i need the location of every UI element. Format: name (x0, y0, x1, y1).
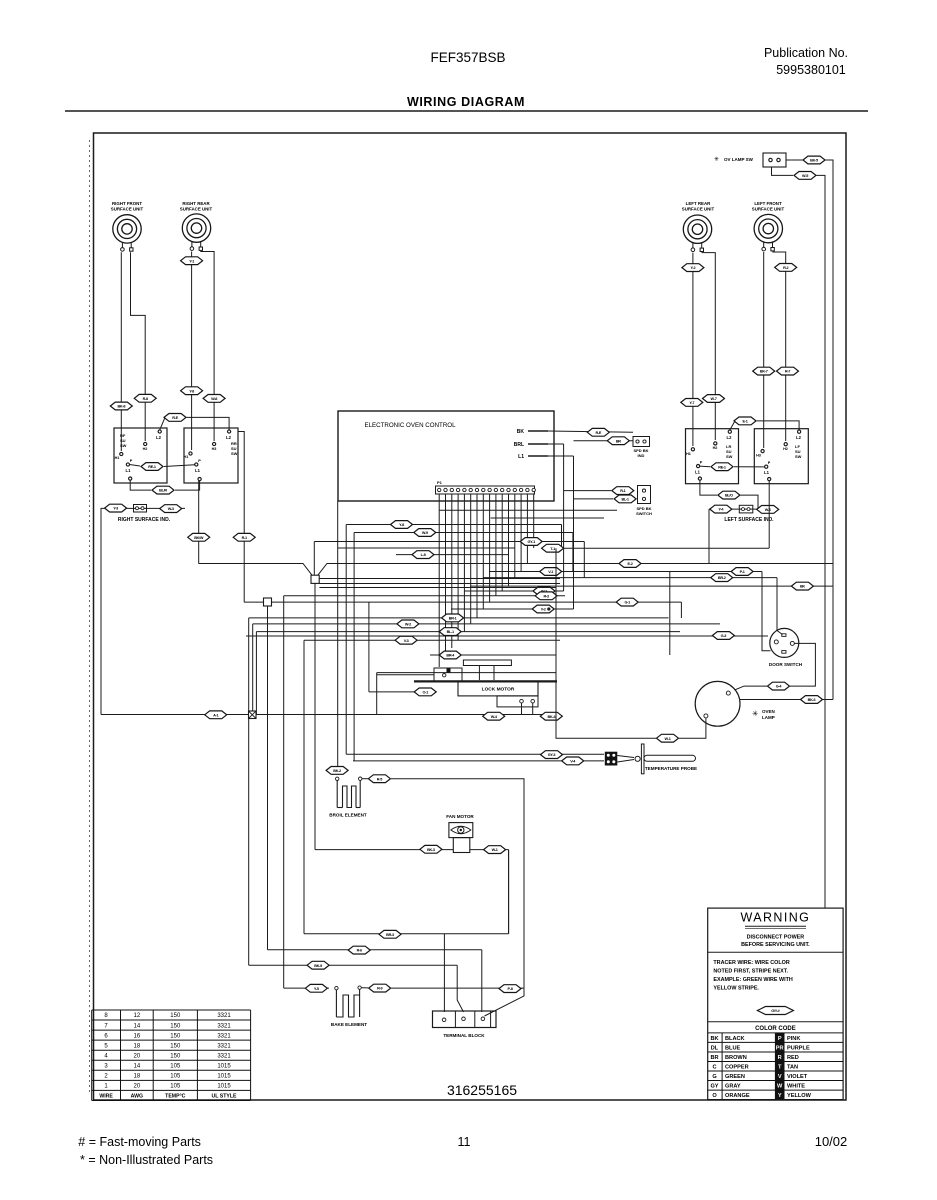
connector E-1 (734, 417, 756, 425)
svg-text:P: P (778, 1036, 782, 1042)
connector BK-3 (420, 845, 442, 853)
wire RE-2 to S4 P (734, 466, 765, 468)
svg-text:WIRING DIAGRAM: WIRING DIAGRAM (407, 95, 525, 109)
svg-text:16: 16 (134, 1033, 141, 1039)
wire pin 8 drop (482, 494, 484, 609)
wire staircase drop 2 (572, 533, 574, 572)
svg-text:WARNING: WARNING (741, 911, 811, 925)
svg-text:V-2: V-2 (541, 608, 546, 612)
S4 terminal H2 (784, 443, 787, 446)
svg-text:W-3: W-3 (168, 507, 174, 511)
svg-text:COLOR CODE: COLOR CODE (755, 1026, 796, 1032)
bake element meander (335, 990, 337, 1017)
svg-text:L2: L2 (156, 435, 162, 440)
wire pin 13 drop (514, 494, 516, 578)
node J1 fan-out lines (319, 578, 560, 580)
wire staircase drop 1 (561, 525, 563, 549)
wire gauge table (92, 1010, 251, 1100)
svg-text:V: V (778, 1074, 782, 1080)
oven lamp DS4 (695, 681, 740, 726)
wire door switch feed (246, 635, 768, 637)
door switch S6 (770, 628, 799, 657)
svg-text:H1: H1 (115, 456, 120, 460)
S3 contact P (697, 465, 700, 468)
wire S2 L1 drop (198, 481, 200, 564)
wire lamp bottom (679, 718, 706, 738)
wire pin 2 drop (445, 494, 447, 655)
svg-text:L2: L2 (796, 435, 802, 440)
wire W right drop (817, 175, 826, 908)
wire lock terminal 2 drop (532, 703, 534, 715)
wire run y577 (483, 577, 777, 579)
wire S2 right drop (238, 432, 244, 603)
wire run y655 (430, 654, 556, 656)
connector W-1 (484, 846, 506, 854)
wire to SPD BK IND (574, 440, 634, 442)
svg-text:12: 12 (134, 1013, 141, 1019)
svg-text:R: R (778, 1055, 782, 1061)
wire pin 7 drop (476, 494, 478, 618)
connector W-8 (203, 395, 225, 403)
svg-text:Y-8: Y-8 (189, 389, 194, 393)
wire to SPD BK SWITCH lower (574, 498, 614, 500)
wire to S4 L2 (757, 421, 800, 430)
connector BK-6 (801, 696, 823, 704)
connector V-2 (532, 605, 554, 613)
S1 terminal H2 (144, 442, 147, 445)
svg-text:P: P (700, 461, 703, 465)
svg-text:Y-7: Y-7 (689, 401, 694, 405)
wire left drop x252 (252, 624, 254, 715)
connector R-1 (612, 487, 634, 495)
svg-text:SURFACE UNIT: SURFACE UNIT (111, 207, 144, 212)
left rear surface unit (683, 215, 711, 252)
svg-text:OVEN: OVEN (762, 709, 775, 714)
lock motor terminal box (497, 696, 538, 707)
svg-text:BL/R: BL/R (159, 489, 167, 493)
connector Y-5 (305, 984, 327, 992)
svg-text:P: P (768, 461, 771, 465)
svg-text:DISCONNECT POWER: DISCONNECT POWER (747, 935, 805, 941)
svg-text:150: 150 (170, 1013, 181, 1019)
wire pin 9 drop (489, 494, 491, 602)
svg-text:BK-7: BK-7 (760, 370, 768, 374)
svg-text:3321: 3321 (217, 1053, 231, 1059)
connector R-E (587, 428, 609, 436)
connector BK/W (188, 533, 210, 541)
connector G-1 (616, 598, 638, 606)
connector BL-1 (614, 495, 636, 503)
wire run y602 (244, 601, 681, 603)
warning box (708, 908, 843, 1100)
wire left drop x283 (283, 596, 285, 988)
wire S3 L2 up (730, 421, 735, 430)
svg-text:P: P (198, 459, 201, 463)
svg-text:H1: H1 (686, 452, 691, 456)
svg-text:R-8: R-8 (143, 397, 148, 401)
svg-text:BK: BK (710, 1036, 718, 1042)
svg-text:W-1: W-1 (665, 737, 671, 741)
svg-text:BK-9: BK-9 (314, 964, 322, 968)
wire RE-1 to S2 P (164, 465, 195, 467)
wire to terminal block pin 3 (481, 950, 483, 1012)
wire LR H2 lead (702, 253, 716, 440)
svg-text:LEFT REAR: LEFT REAR (686, 201, 711, 206)
wire pin 6 drop (470, 494, 472, 624)
connector G/Y-# (757, 1007, 793, 1015)
svg-text:1015: 1015 (217, 1063, 231, 1069)
wire horizontal A-1 run (101, 714, 560, 716)
S3 terminal L2 (728, 430, 731, 433)
wire run y640 (304, 639, 560, 641)
svg-text:P1: P1 (437, 480, 443, 485)
svg-text:W: W (777, 1084, 783, 1090)
svg-text:20: 20 (134, 1053, 141, 1059)
svg-text:TEMPERATURE PROBE: TEMPERATURE PROBE (645, 766, 697, 771)
wire RR H1 lead (191, 252, 193, 451)
wire to S2 L1 (175, 481, 200, 490)
connector R-8 (134, 394, 156, 402)
wire bottom row 3 (249, 964, 458, 966)
svg-text:EXAMPLE: GREEN WIRE WITH: EXAMPLE: GREEN WIRE WITH (713, 977, 792, 983)
wire door bottom feed (762, 572, 771, 651)
connector R-7 (777, 367, 799, 375)
junction dot (548, 608, 550, 610)
electronic oven control U1 (338, 411, 554, 501)
wire x376 drop (376, 673, 378, 715)
svg-text:SW: SW (120, 443, 127, 448)
connector O-1 (414, 688, 436, 696)
svg-text:COPPER: COPPER (725, 1064, 749, 1070)
connector Y-8 (391, 521, 413, 529)
lock motor assembly top bar (463, 660, 511, 666)
wire run y532 (354, 532, 573, 534)
svg-text:BR-2: BR-2 (718, 576, 726, 580)
broil element meander (336, 781, 338, 808)
svg-text:20: 20 (134, 1084, 141, 1090)
svg-text:R-1: R-1 (242, 536, 247, 540)
connector BK-7 (753, 367, 775, 375)
svg-text:BK-8: BK-8 (117, 405, 125, 409)
svg-text:BK-4: BK-4 (547, 715, 556, 719)
speed bake switch S5 (638, 486, 651, 504)
svg-text:BK-6: BK-6 (808, 698, 816, 702)
wire door top feed (777, 578, 783, 635)
right rear surface unit (182, 214, 210, 251)
svg-text:T: T (778, 1064, 782, 1070)
S1 contact P (126, 463, 129, 466)
svg-text:LEFT FRONT: LEFT FRONT (754, 201, 782, 206)
S2 terminal H3 (213, 442, 216, 445)
wire bake right into block (485, 988, 525, 1016)
wire run y617 (249, 617, 669, 619)
left front surface switch S4 (754, 429, 808, 484)
wire bottom row 2 (268, 949, 482, 951)
fan motor base (453, 838, 470, 853)
svg-text:AWG: AWG (131, 1094, 143, 1100)
svg-text:150: 150 (170, 1023, 181, 1029)
wire to lamp top terminal (731, 686, 767, 691)
junction J3 (249, 711, 257, 719)
svg-text:TEMP°C: TEMP°C (165, 1094, 185, 1100)
svg-text:1015: 1015 (217, 1084, 231, 1090)
svg-text:VIOLET: VIOLET (787, 1074, 808, 1080)
wire lock motor left feed (369, 691, 434, 693)
wire S1 L1 down (130, 480, 151, 490)
border scan shadow (89, 140, 91, 1095)
svg-text:FAN MOTOR: FAN MOTOR (446, 814, 474, 819)
pin 16 (438, 488, 441, 491)
temperature probe connector (605, 752, 618, 766)
svg-text:H2: H2 (713, 446, 718, 450)
S2 terminal H1 (189, 452, 192, 455)
connector W-4 (483, 712, 505, 720)
svg-text:SURFACE UNIT: SURFACE UNIT (682, 207, 715, 212)
svg-text:3321: 3321 (217, 1043, 231, 1049)
wire RR H3 lead (200, 252, 214, 442)
svg-text:W-6: W-6 (765, 508, 771, 512)
svg-text:10/02: 10/02 (815, 1134, 848, 1149)
svg-text:ORANGE: ORANGE (725, 1093, 750, 1099)
wire RF H2 lead (131, 252, 146, 441)
wire S1 L2 up (160, 417, 165, 430)
connector R-3 (535, 592, 557, 600)
svg-text:BL/O: BL/O (725, 494, 733, 498)
svg-text:WHITE: WHITE (787, 1084, 805, 1090)
svg-text:H3: H3 (756, 454, 761, 458)
svg-text:14: 14 (134, 1063, 141, 1069)
wire LF H3 lead (763, 252, 765, 448)
svg-text:H2: H2 (143, 447, 148, 451)
svg-text:R-7: R-7 (785, 370, 790, 374)
svg-text:P: P (130, 459, 133, 463)
wire pin 15 drop (526, 494, 528, 564)
oven lamp switch SW1 (763, 153, 786, 167)
svg-text:L-8: L-8 (421, 553, 426, 557)
wire J2 drop (267, 606, 269, 950)
connector R-2 (775, 264, 797, 272)
svg-text:3321: 3321 (217, 1023, 231, 1029)
svg-text:1015: 1015 (217, 1074, 231, 1080)
connector BK-9 (307, 961, 329, 969)
connector Y-2 (682, 264, 704, 272)
svg-text:V-1: V-1 (548, 570, 553, 574)
connector BK (791, 582, 813, 590)
connector R-5 (368, 775, 390, 783)
svg-text:BR: BR (710, 1055, 718, 1061)
connector W-3 (160, 505, 182, 513)
S1 terminal L1 (129, 477, 132, 480)
wire to S2 L2 (187, 417, 230, 430)
svg-text:L2: L2 (226, 435, 232, 440)
svg-text:G-1: G-1 (624, 601, 630, 605)
left rear surface switch S3 (686, 429, 739, 484)
svg-text:DL: DL (711, 1045, 719, 1051)
svg-text:R-3: R-3 (543, 594, 548, 598)
wire fan right drop (508, 850, 510, 934)
svg-text:W-5: W-5 (802, 174, 808, 178)
svg-text:L1: L1 (126, 468, 132, 473)
speed bake indicator DS3 (633, 437, 650, 447)
svg-text:YELLOW STRIPE.: YELLOW STRIPE. (713, 986, 759, 992)
svg-text:W-7: W-7 (711, 397, 717, 401)
svg-text:Y: Y (778, 1093, 782, 1099)
wire run y623 (253, 623, 720, 625)
svg-text:SW: SW (231, 451, 238, 456)
wire y602 end drop (680, 602, 682, 618)
svg-text:RED: RED (787, 1055, 799, 1061)
wire broil to right drop (391, 779, 524, 988)
svg-text:SW: SW (726, 454, 733, 459)
connector RE-1 (141, 463, 163, 471)
svg-text:TAN: TAN (787, 1064, 798, 1070)
svg-text:P-8: P-8 (507, 987, 512, 991)
svg-text:150: 150 (170, 1033, 181, 1039)
wire RF H1 lead (120, 252, 122, 451)
wire J1 drop to fan row (314, 583, 316, 849)
svg-text:SURFACE UNIT: SURFACE UNIT (180, 207, 213, 212)
relay oval RE-1 between switch P contacts (130, 465, 141, 467)
connector V-3 (395, 636, 417, 644)
connector Y-4 (710, 505, 732, 513)
wire run y548 (546, 547, 769, 549)
svg-text:R-5: R-5 (377, 777, 382, 781)
svg-text:18: 18 (134, 1043, 141, 1049)
svg-text:Publication No.: Publication No. (764, 46, 848, 60)
wire LF H2 lead (772, 252, 785, 441)
svg-text:150: 150 (170, 1043, 181, 1049)
svg-text:✳: ✳ (752, 709, 759, 718)
node junction J1 (311, 575, 319, 583)
svg-text:L1: L1 (695, 470, 701, 475)
connector BR-1 (442, 614, 464, 622)
svg-text:TRACER WIRE: WIRE COLOR: TRACER WIRE: WIRE COLOR (713, 960, 789, 966)
svg-text:FEF357BSB: FEF357BSB (430, 50, 505, 65)
svg-text:RIGHT SURFACE IND.: RIGHT SURFACE IND. (118, 517, 171, 523)
wire switch to connector (786, 159, 803, 161)
wire BK right drop (826, 160, 834, 586)
wire left feed vertical (101, 508, 104, 714)
connector R-1 (233, 533, 255, 541)
wire run y554 (396, 554, 509, 556)
wire x669 drop (669, 572, 671, 656)
temperature probe body (617, 756, 634, 758)
wire pin 11 drop (501, 494, 503, 591)
S4 terminal L2 (798, 430, 801, 433)
wire switch bottom (772, 167, 794, 175)
wire lamp right to BK drop (740, 699, 833, 701)
svg-text:316255165: 316255165 (447, 1082, 517, 1098)
svg-text:W-1: W-1 (492, 848, 498, 852)
svg-text:BK/W: BK/W (194, 536, 204, 540)
svg-text:GREEN: GREEN (725, 1074, 745, 1080)
wire door to lamp (790, 643, 815, 686)
svg-text:L1: L1 (518, 454, 524, 460)
title underline (65, 110, 868, 112)
svg-text:Y-3: Y-3 (113, 507, 118, 511)
svg-text:L1: L1 (195, 468, 201, 473)
svg-text:BK-2: BK-2 (333, 769, 341, 773)
wire run y541 (314, 541, 584, 543)
connector W-2 (397, 620, 419, 628)
wire pin 12 drop (508, 494, 510, 586)
svg-text:LAMP: LAMP (762, 715, 775, 720)
connector BR-4 (439, 651, 461, 659)
svg-text:UL STYLE: UL STYLE (212, 1094, 238, 1100)
svg-text:R-6: R-6 (357, 949, 362, 953)
wire pin 10 drop (495, 494, 497, 596)
svg-text:BK: BK (517, 429, 525, 435)
wire run y631 (256, 631, 680, 633)
svg-text:SW: SW (795, 454, 802, 459)
svg-text:DOOR SWITCH: DOOR SWITCH (769, 662, 803, 667)
svg-text:RE-1: RE-1 (718, 465, 726, 469)
S4 contact P (765, 465, 768, 468)
connector Y-3 (105, 504, 127, 512)
connector R-9 (369, 984, 391, 992)
connector G-4 (768, 682, 790, 690)
connector BR-2 (711, 574, 733, 582)
svg-text:RE-1: RE-1 (148, 465, 156, 469)
svg-text:R-2: R-2 (783, 266, 788, 270)
svg-text:GY-3: GY-3 (548, 753, 556, 757)
svg-text:W-8: W-8 (211, 397, 217, 401)
svg-text:Y-8: Y-8 (399, 523, 404, 527)
svg-text:PINK: PINK (787, 1036, 800, 1042)
svg-text:PR: PR (776, 1045, 784, 1051)
wire to SPD BK SWITCH upper (564, 490, 611, 492)
svg-text:TERMINAL BLOCK: TERMINAL BLOCK (443, 1033, 485, 1038)
svg-text:G-3: G-3 (721, 634, 727, 638)
svg-text:A-1: A-1 (213, 713, 218, 717)
wire run y672 (377, 672, 556, 674)
wire run y591 (464, 590, 564, 592)
svg-text:E-1: E-1 (742, 420, 747, 424)
svg-text:BEFORE SERVICING UNIT.: BEFORE SERVICING UNIT. (741, 942, 810, 948)
connector V-4 (562, 757, 584, 765)
svg-text:BR-1: BR-1 (449, 617, 457, 621)
right front surface unit (113, 215, 141, 252)
wire probe drop 2 (353, 533, 355, 761)
svg-text:105: 105 (170, 1084, 181, 1090)
connector E-2 (619, 560, 641, 568)
connector L-8 (412, 551, 434, 559)
svg-text:* = Non-Illustrated Parts: * = Non-Illustrated Parts (80, 1153, 213, 1167)
wire right surface indicator (104, 507, 185, 509)
connector BL/O (718, 491, 740, 499)
wire pin 4 drop (457, 494, 459, 640)
left surface indicator lamp DS2 (739, 505, 753, 513)
wire L1 out (548, 455, 574, 457)
wire S3 L1 down (700, 480, 717, 495)
svg-text:Y-2: Y-2 (690, 266, 695, 270)
connector W-5 (794, 172, 816, 180)
svg-text:105: 105 (170, 1063, 181, 1069)
svg-text:L2: L2 (727, 435, 733, 440)
wire pin 5 drop (463, 494, 465, 632)
connector W-6 (757, 506, 779, 514)
wire run y586 (470, 585, 833, 587)
wire probe line 1 (346, 753, 604, 755)
svg-text:G: G (712, 1074, 716, 1080)
S3 terminal H2 (714, 442, 717, 445)
wire left surface indicator (709, 508, 773, 510)
connector V-1 (540, 568, 562, 576)
S2 contact P (195, 463, 198, 466)
svg-text:BR-3: BR-3 (386, 933, 394, 937)
wire lock motor feed (368, 602, 370, 692)
wire pin 14 drop (520, 494, 522, 572)
